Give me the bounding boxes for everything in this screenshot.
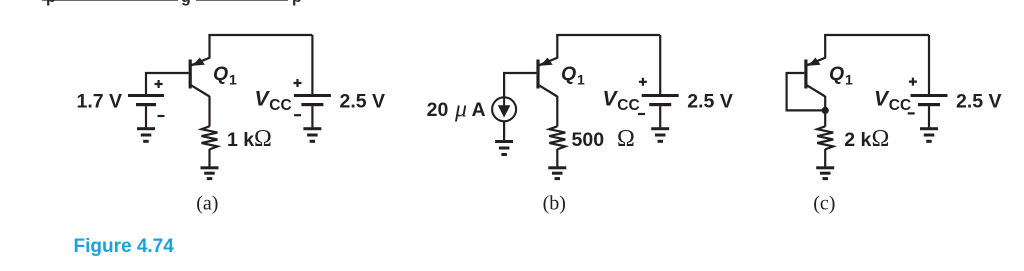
svg-text:1 k: 1 k xyxy=(227,129,254,151)
svg-text:2 k: 2 k xyxy=(844,129,871,151)
wire top rail (b) xyxy=(557,35,660,36)
wire collector Q1b to R2 xyxy=(556,96,558,127)
svg-text:(a): (a) xyxy=(196,193,218,215)
ground V1 xyxy=(137,127,155,143)
svg-text:V: V xyxy=(874,87,890,110)
svg-text:1.7 V: 1.7 V xyxy=(77,90,123,112)
wire top rail (c) xyxy=(825,35,929,36)
resistor R3 2 kOhm xyxy=(817,126,833,149)
wire I1 to base Q1 (b) xyxy=(504,73,536,97)
battery VCC (c) 2.5V xyxy=(911,35,948,127)
svg-text:2.5 V: 2.5 V xyxy=(340,90,386,112)
ground R3 xyxy=(816,166,834,180)
wire R1 to ground xyxy=(208,149,210,167)
wire V1 to base Q1 (a) xyxy=(146,73,189,94)
transistor Q1c (pnp) xyxy=(804,35,825,97)
svg-text:500: 500 xyxy=(572,129,605,151)
battery VCC (a) 2.5V xyxy=(294,35,331,127)
transistor Q1a (pnp) xyxy=(189,35,210,97)
label + VCC (b) xyxy=(639,78,647,86)
wire top rail (a) xyxy=(210,35,313,36)
transistor Q1b (pnp) xyxy=(536,35,557,97)
svg-text:2.5 V: 2.5 V xyxy=(687,90,733,112)
ground VCC (a) xyxy=(303,127,321,143)
label - VCC (b) xyxy=(638,113,645,115)
svg-text:p: p xyxy=(46,0,56,6)
svg-text:Q: Q xyxy=(561,63,576,85)
svg-text:μ: μ xyxy=(454,97,467,123)
svg-text:(c): (c) xyxy=(813,193,835,215)
svg-text:Ω: Ω xyxy=(617,126,635,152)
wire R3 to ground xyxy=(824,149,826,167)
svg-text:1: 1 xyxy=(229,72,237,88)
svg-text:1: 1 xyxy=(577,72,585,88)
wire R2 to ground xyxy=(556,149,558,167)
label + VCC (c) xyxy=(909,78,917,86)
svg-text:A: A xyxy=(472,99,486,121)
battery V1 1.7V xyxy=(128,94,164,127)
label - VCC (a) xyxy=(294,114,301,116)
wire collector Q1a to R1 xyxy=(208,96,210,127)
svg-text:1: 1 xyxy=(845,72,853,88)
label + VCC (a) xyxy=(294,79,302,87)
svg-text:CC: CC xyxy=(889,97,911,114)
ground R1 xyxy=(201,166,219,180)
svg-text:V: V xyxy=(603,87,619,110)
svg-text:(b): (b) xyxy=(543,193,566,215)
svg-text:2.5 V: 2.5 V xyxy=(956,90,1002,112)
svg-text:CC: CC xyxy=(269,97,291,114)
ground I1 xyxy=(495,140,513,156)
cropped text line at top of page xyxy=(42,0,302,6)
label - V1 xyxy=(158,115,165,117)
wire collector Q1c to R3 xyxy=(824,96,826,127)
svg-text:CC: CC xyxy=(617,97,639,114)
ground VCC (b) xyxy=(651,127,669,143)
ground R2 xyxy=(548,166,566,180)
svg-text:Ω: Ω xyxy=(254,126,272,152)
ground VCC (c) xyxy=(920,127,938,143)
node collector-base junction (c) xyxy=(822,107,829,114)
svg-text:Q: Q xyxy=(829,63,844,85)
svg-text:V: V xyxy=(255,87,271,110)
resistor R2 500 Ohm xyxy=(549,126,565,149)
wire base loop Q1c (diode connection) xyxy=(787,73,826,110)
svg-text:p: p xyxy=(292,0,302,6)
svg-text:Q: Q xyxy=(213,63,228,85)
resistor R1 1 kOhm xyxy=(202,126,218,149)
svg-text:Figure 4.74: Figure 4.74 xyxy=(74,236,175,257)
svg-text:20: 20 xyxy=(427,99,449,121)
label + V1 xyxy=(155,80,163,88)
svg-text:Ω: Ω xyxy=(872,126,890,152)
label - VCC (c) xyxy=(908,112,915,114)
wire I1 to ground xyxy=(503,122,505,140)
battery VCC (b) 2.5V xyxy=(642,35,679,127)
svg-text:g: g xyxy=(181,0,191,6)
current source I1 20uA xyxy=(492,97,516,121)
